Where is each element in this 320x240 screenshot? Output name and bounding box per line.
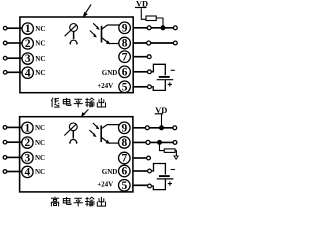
svg-text:+24V: +24V	[97, 82, 113, 90]
svg-text:NC: NC	[35, 25, 45, 33]
svg-text:NC: NC	[35, 139, 45, 147]
svg-text:GND: GND	[102, 168, 118, 176]
svg-text:6: 6	[121, 166, 127, 178]
svg-text:1: 1	[25, 122, 31, 134]
svg-text:VD: VD	[136, 0, 148, 9]
svg-text:9: 9	[122, 22, 128, 34]
svg-text:NC: NC	[35, 124, 45, 132]
svg-text:8: 8	[121, 137, 127, 149]
svg-text:3: 3	[25, 152, 31, 164]
svg-text:5: 5	[122, 81, 128, 93]
svg-text:2: 2	[25, 137, 31, 149]
svg-text:VD: VD	[155, 106, 167, 115]
svg-text:NC: NC	[35, 154, 45, 162]
svg-text:7: 7	[122, 51, 128, 63]
svg-text:8: 8	[122, 38, 128, 50]
svg-text:+24V: +24V	[97, 180, 113, 188]
svg-text:2: 2	[25, 38, 31, 50]
svg-text:NC: NC	[35, 40, 45, 48]
svg-text:GND: GND	[102, 69, 118, 77]
svg-text:NC: NC	[35, 55, 45, 63]
svg-text:9: 9	[121, 122, 127, 134]
svg-text:6: 6	[122, 66, 128, 78]
svg-text:7: 7	[121, 153, 127, 165]
svg-text:1: 1	[25, 23, 31, 35]
svg-text:3: 3	[25, 53, 31, 65]
svg-text:5: 5	[121, 180, 127, 192]
svg-text:NC: NC	[35, 69, 45, 77]
svg-text:4: 4	[25, 67, 31, 79]
svg-text:NC: NC	[35, 168, 45, 176]
svg-text:4: 4	[25, 167, 31, 179]
